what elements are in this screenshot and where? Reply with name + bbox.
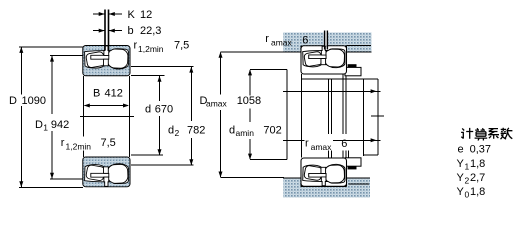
svg-text:7,5: 7,5 <box>101 137 116 149</box>
svg-text:e: e <box>458 144 464 156</box>
svg-text:1090: 1090 <box>22 95 46 107</box>
svg-text:412: 412 <box>105 88 123 100</box>
svg-text:d: d <box>145 104 151 116</box>
svg-text:2: 2 <box>465 176 470 186</box>
svg-text:r: r <box>134 40 138 52</box>
svg-text:d: d <box>229 125 235 137</box>
svg-text:Y: Y <box>457 172 465 184</box>
svg-text:782: 782 <box>187 125 205 137</box>
svg-text:0: 0 <box>465 190 470 200</box>
svg-text:22,3: 22,3 <box>140 25 161 37</box>
svg-text:1058: 1058 <box>237 95 261 107</box>
svg-text:amax: amax <box>206 98 228 108</box>
svg-text:702: 702 <box>263 125 281 137</box>
svg-text:1,8: 1,8 <box>470 186 485 198</box>
svg-text:0,37: 0,37 <box>470 144 491 156</box>
svg-text:r: r <box>265 33 269 45</box>
svg-text:Y: Y <box>457 186 465 198</box>
svg-text:D: D <box>9 95 17 107</box>
svg-text:1,2min: 1,2min <box>66 142 92 152</box>
svg-text:amax: amax <box>311 142 333 152</box>
svg-text:amax: amax <box>271 38 293 48</box>
svg-text:r: r <box>61 137 65 149</box>
svg-text:b: b <box>128 25 134 37</box>
svg-text:amin: amin <box>236 128 255 138</box>
svg-text:2,7: 2,7 <box>470 172 485 184</box>
svg-text:d: d <box>168 125 174 137</box>
svg-text:1: 1 <box>465 162 470 172</box>
svg-text:670: 670 <box>155 104 173 116</box>
svg-text:6: 6 <box>302 34 308 46</box>
svg-text:1,2min: 1,2min <box>138 44 164 54</box>
svg-text:2: 2 <box>175 128 180 138</box>
svg-text:12: 12 <box>140 9 152 21</box>
svg-text:1: 1 <box>43 123 48 133</box>
svg-text:1,8: 1,8 <box>470 158 485 170</box>
svg-text:D: D <box>35 119 43 131</box>
svg-text:7,5: 7,5 <box>174 40 189 52</box>
svg-text:942: 942 <box>51 119 69 131</box>
svg-text:6: 6 <box>341 138 347 150</box>
svg-text:Y: Y <box>457 158 465 170</box>
svg-text:r: r <box>305 138 309 150</box>
svg-text:B: B <box>93 88 100 100</box>
svg-text:K: K <box>128 9 136 21</box>
